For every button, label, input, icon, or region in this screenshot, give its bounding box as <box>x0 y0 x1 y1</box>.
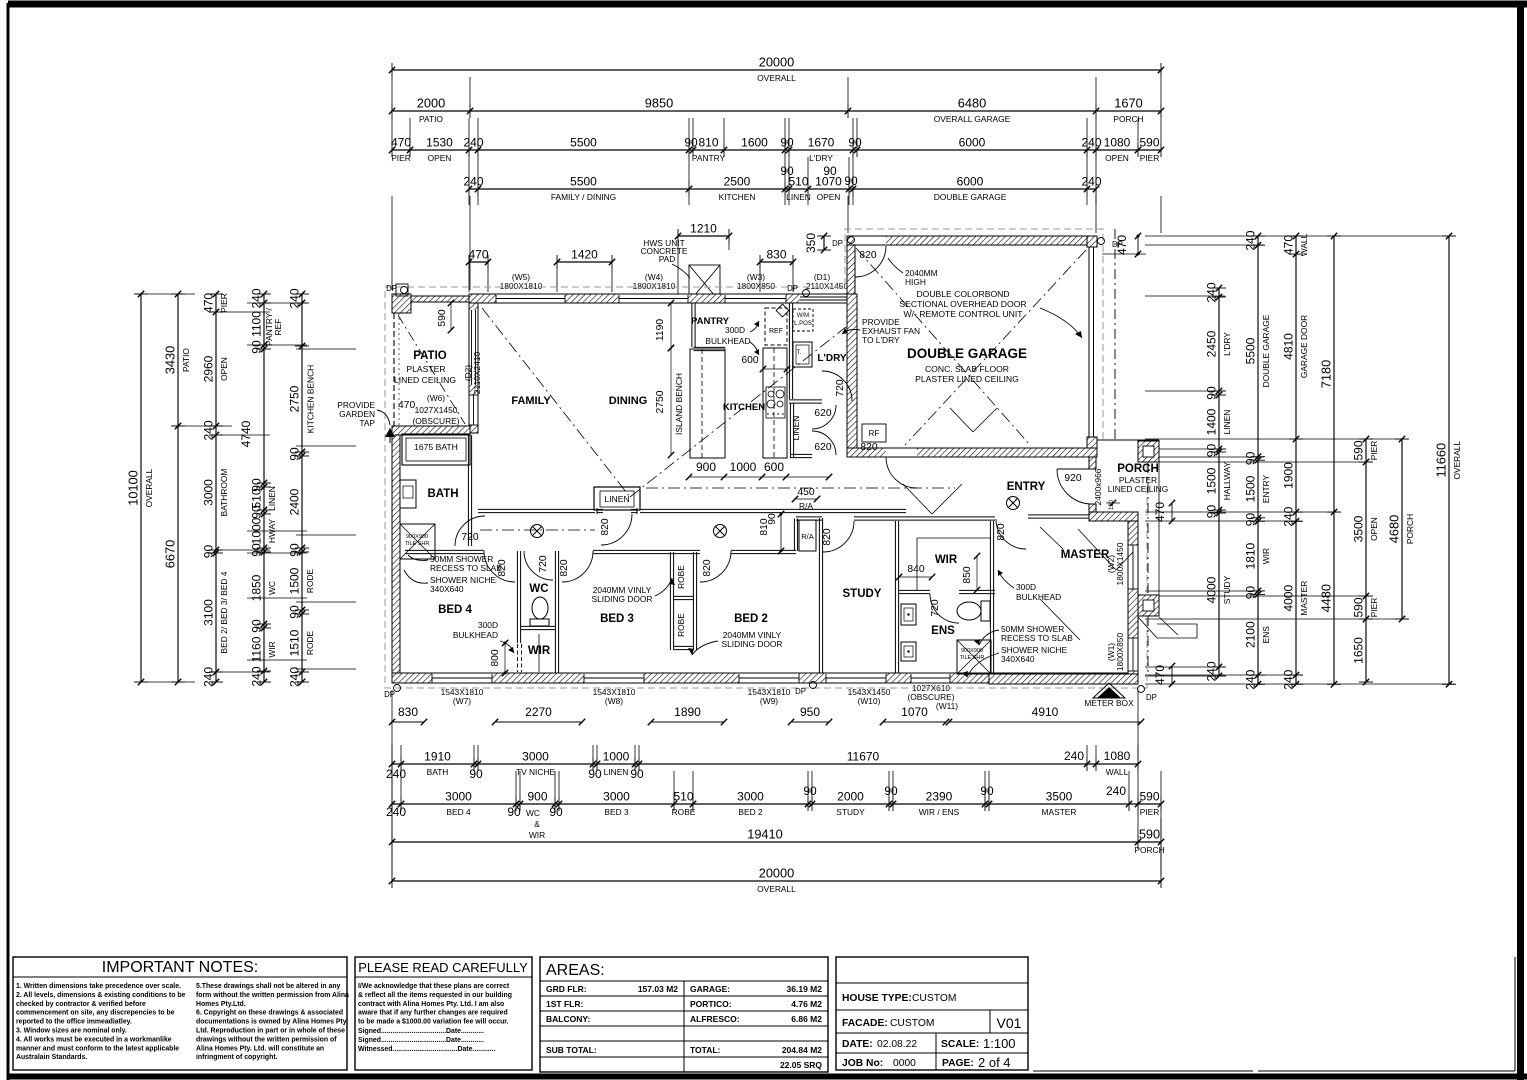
svg-text:FAMILY: FAMILY <box>511 395 551 407</box>
svg-text:1650: 1650 <box>1352 637 1366 664</box>
svg-text:2400x966: 2400x966 <box>1093 468 1103 505</box>
svg-text:240: 240 <box>1282 506 1296 526</box>
meter box <box>1093 683 1125 698</box>
svg-text:240: 240 <box>386 767 406 781</box>
entry diagonals <box>903 484 932 514</box>
svg-text:TAP: TAP <box>359 418 375 428</box>
svg-text:590: 590 <box>437 309 448 326</box>
svg-text:0000: 0000 <box>893 1058 916 1069</box>
left dim chain4 <box>263 294 265 682</box>
svg-text:2750: 2750 <box>655 390 666 413</box>
svg-text:90: 90 <box>767 513 778 525</box>
right dim chain A <box>1218 288 1220 676</box>
svg-text:WIR: WIR <box>529 830 545 840</box>
svg-text:6. Copyright on these drawings: 6. Copyright on these drawings & associa… <box>196 1010 343 1017</box>
hallway north wall east of linen <box>640 508 906 510</box>
svg-text:ROBE: ROBE <box>676 565 686 589</box>
bed3 door arc <box>562 551 593 582</box>
porch step edges <box>1097 520 1128 522</box>
svg-text:470: 470 <box>391 136 411 150</box>
svg-text:920: 920 <box>1064 473 1081 484</box>
svg-text:DP: DP <box>384 690 395 699</box>
svg-text:240: 240 <box>1205 282 1219 302</box>
svg-text:90: 90 <box>250 505 264 519</box>
svg-text:1530: 1530 <box>426 136 453 150</box>
grey window band right wall <box>1130 545 1135 589</box>
svg-text:3000: 3000 <box>202 479 216 506</box>
svg-text:OPEN: OPEN <box>219 357 229 381</box>
svg-text:Homes Pty.Ltd.: Homes Pty.Ltd. <box>196 1001 246 1008</box>
bath north wall <box>392 426 470 435</box>
svg-text:KITCHEN BENCH: KITCHEN BENCH <box>306 365 316 433</box>
svg-text:470: 470 <box>398 400 415 411</box>
svg-text:2750: 2750 <box>288 385 302 412</box>
svg-text:10100: 10100 <box>126 470 141 506</box>
svg-text:1420: 1420 <box>571 248 598 262</box>
svg-text:& reflect all the items reques: & reflect all the items requested in our… <box>358 992 512 999</box>
dim 830 w3 <box>760 261 793 263</box>
svg-text:1070: 1070 <box>901 705 928 719</box>
svg-text:PATIO: PATIO <box>413 350 446 362</box>
svg-text:450: 450 <box>797 487 814 498</box>
svg-text:METER BOX: METER BOX <box>1084 698 1134 708</box>
svg-text:LINEN: LINEN <box>604 494 629 504</box>
svg-text:90: 90 <box>1205 505 1219 519</box>
svg-text:1190: 1190 <box>655 319 666 341</box>
svg-text:11660: 11660 <box>1434 443 1449 478</box>
bed4 door arc <box>484 551 515 582</box>
svg-text:2960: 2960 <box>202 355 216 382</box>
svg-text:BULKHEAD: BULKHEAD <box>1016 592 1061 602</box>
svg-text:ROBE: ROBE <box>672 807 696 817</box>
window W5 opening <box>496 295 565 303</box>
svg-text:600: 600 <box>741 355 758 366</box>
svg-text:720: 720 <box>835 379 846 396</box>
svg-text:2390: 2390 <box>926 790 953 804</box>
svg-text:1800X850: 1800X850 <box>737 281 776 291</box>
svg-text:240: 240 <box>250 666 264 686</box>
svg-text:1900: 1900 <box>1282 462 1296 489</box>
family west wall with D2 and W6 <box>469 303 478 433</box>
svg-text:590: 590 <box>1139 827 1160 842</box>
svg-text:DP: DP <box>795 687 806 696</box>
svg-text:BED 3: BED 3 <box>600 613 634 625</box>
svg-text:PANTRY: PANTRY <box>692 153 726 163</box>
svg-text:590: 590 <box>1352 440 1366 460</box>
study top wall <box>854 516 900 518</box>
svg-text:1080: 1080 <box>1104 749 1131 763</box>
svg-text:L.POS: L.POS <box>794 321 812 327</box>
svg-text:2500: 2500 <box>724 175 751 189</box>
svg-text:1600: 1600 <box>741 136 768 150</box>
REF dashed box <box>765 308 787 345</box>
svg-text:TILE SHR: TILE SHR <box>405 541 430 547</box>
master door arc <box>996 519 1026 549</box>
west wall lower <box>392 426 400 682</box>
top dimension chain row4: rooms <box>469 188 1096 190</box>
svg-text:1910: 1910 <box>424 750 451 764</box>
svg-text:90: 90 <box>1244 513 1258 527</box>
svg-text:820: 820 <box>859 250 876 261</box>
patio corner pier <box>392 294 411 313</box>
svg-text:ISLAND BENCH: ISLAND BENCH <box>674 373 684 435</box>
svg-text:PIER: PIER <box>219 293 229 313</box>
bath walls <box>467 435 469 546</box>
svg-text:90: 90 <box>507 805 521 819</box>
svg-text:(OBSCURE): (OBSCURE) <box>413 416 460 426</box>
dim 1420 w4 <box>557 261 612 263</box>
svg-text:R/A: R/A <box>801 532 814 541</box>
svg-text:3500: 3500 <box>1352 515 1366 542</box>
dim 470 patio <box>469 261 488 263</box>
svg-text:350: 350 <box>804 233 818 253</box>
svg-text:DOUBLE GARAGE: DOUBLE GARAGE <box>907 346 1027 361</box>
laundry door arc <box>822 371 852 401</box>
svg-text:2450: 2450 <box>1205 330 1219 357</box>
svg-text:SCALE:: SCALE: <box>941 1039 979 1050</box>
master north wall west part <box>1028 514 1089 516</box>
svg-text:90: 90 <box>848 136 862 150</box>
bulkhead leader arrows <box>750 321 759 332</box>
bottom chain row G <box>392 803 1161 805</box>
svg-text:470: 470 <box>1153 665 1167 685</box>
svg-text:PIER: PIER <box>391 153 411 163</box>
bedroom row top wall <box>405 549 484 551</box>
svg-text:BED 3: BED 3 <box>604 807 629 817</box>
svg-text:infringment of copyright.: infringment of copyright. <box>196 1054 278 1061</box>
svg-text:aware that if any further chan: aware that if any further changes are re… <box>358 1010 508 1017</box>
bed2 door arc <box>700 551 731 582</box>
svg-text:RF: RF <box>869 429 880 438</box>
garage rear wall <box>847 448 1097 457</box>
bottom chain 20000 OVERALL <box>392 880 1161 882</box>
ceiling diagonal dining-kitchen <box>630 327 846 497</box>
bath vanity <box>400 480 416 508</box>
svg-text:900: 900 <box>527 790 547 804</box>
svg-text:19410: 19410 <box>747 827 783 842</box>
svg-text:LINEN: LINEN <box>791 416 801 441</box>
svg-text:240: 240 <box>202 667 216 687</box>
svg-text:BED 2: BED 2 <box>734 613 768 625</box>
svg-text:90: 90 <box>588 767 602 781</box>
svg-text:WIR / ENS: WIR / ENS <box>919 807 960 817</box>
svg-text:240: 240 <box>386 805 406 819</box>
svg-text:PANTRY: PANTRY <box>691 316 730 327</box>
left dim chain3 <box>215 294 217 682</box>
svg-text:90: 90 <box>288 543 302 557</box>
svg-text:DP: DP <box>1112 240 1123 249</box>
svg-text:830: 830 <box>766 248 786 262</box>
svg-text:90: 90 <box>684 136 698 150</box>
svg-text:LINED CEILING: LINED CEILING <box>394 375 456 385</box>
svg-text:240: 240 <box>1064 749 1084 763</box>
porch slab step bottom-right <box>1157 623 1197 625</box>
svg-text:90: 90 <box>803 784 817 798</box>
svg-text:240: 240 <box>1081 175 1101 189</box>
study R/A closet <box>796 516 822 518</box>
svg-text:KITCHEN: KITCHEN <box>719 192 756 202</box>
svg-text:840: 840 <box>907 564 924 575</box>
important notes block <box>13 957 347 1070</box>
master bottom wall <box>989 674 1138 684</box>
svg-text:590: 590 <box>1139 136 1159 150</box>
svg-text:90: 90 <box>980 784 994 798</box>
svg-text:1510: 1510 <box>288 629 302 656</box>
svg-text:Alina Homes Pty. Ltd. will con: Alina Homes Pty. Ltd. will constitute an <box>196 1045 324 1052</box>
svg-text:documentations is owned by Ali: documentations is owned by Alina Homes P… <box>196 1019 348 1026</box>
svg-text:2110X2410: 2110X2410 <box>472 352 482 395</box>
bottom chain 19410 <box>392 841 1161 843</box>
svg-text:REF: REF <box>769 328 783 335</box>
svg-text:HIGH: HIGH <box>905 277 926 287</box>
svg-text:590: 590 <box>1139 790 1159 804</box>
wir shelf outline <box>916 538 918 590</box>
linen closet hall <box>594 487 640 510</box>
grey window bands bottom wall <box>432 676 492 681</box>
svg-text:2 of 4: 2 of 4 <box>978 1055 1011 1070</box>
900 1000 600 dims <box>689 476 829 478</box>
svg-text:KITCHEN: KITCHEN <box>723 402 765 413</box>
svg-text:DP: DP <box>1146 693 1157 702</box>
svg-text:4740: 4740 <box>239 420 253 447</box>
garage front wall <box>847 236 1097 245</box>
svg-text:240: 240 <box>1081 136 1101 150</box>
svg-text:GARAGE:: GARAGE: <box>690 984 730 994</box>
svg-text:510: 510 <box>673 790 693 804</box>
svg-text:9850: 9850 <box>645 96 673 111</box>
linen closet side stubs <box>597 508 603 510</box>
svg-text:PATIO: PATIO <box>419 114 443 124</box>
svg-text:1080: 1080 <box>1104 136 1131 150</box>
svg-text:OVERALL: OVERALL <box>757 884 796 894</box>
svg-text:TILE SHR: TILE SHR <box>960 655 985 661</box>
svg-text:900X900: 900X900 <box>961 648 983 654</box>
svg-text:Signed........................: Signed..................................… <box>358 1028 484 1035</box>
svg-text:STUDY: STUDY <box>836 807 865 817</box>
dim 1210 island bench <box>678 235 729 237</box>
svg-text:02.08.22: 02.08.22 <box>877 1039 917 1050</box>
svg-text:OVERALL: OVERALL <box>1452 441 1462 480</box>
svg-text:I/We acknowledge that these pl: I/We acknowledge that these plans are co… <box>358 983 510 990</box>
svg-text:PLASTER: PLASTER <box>406 364 445 374</box>
svg-text:90: 90 <box>288 605 302 619</box>
svg-text:90: 90 <box>780 136 794 150</box>
svg-text:MASTER: MASTER <box>1299 581 1309 616</box>
svg-text:HOUSE TYPE:: HOUSE TYPE: <box>842 993 912 1004</box>
svg-text:PIER: PIER <box>1140 153 1160 163</box>
svg-text:900X900: 900X900 <box>406 534 428 540</box>
svg-text:820: 820 <box>600 518 611 535</box>
svg-text:90: 90 <box>1205 444 1219 458</box>
svg-text:LINEN: LINEN <box>786 192 811 202</box>
svg-text:90: 90 <box>288 447 302 461</box>
bottom small dims row <box>392 721 424 723</box>
ens door arc <box>930 594 959 623</box>
svg-text:manner and must conform to th: manner and must conform to the latest ap… <box>16 1045 179 1052</box>
garage diagonals <box>856 248 1030 445</box>
svg-text:3000: 3000 <box>445 790 472 804</box>
svg-text:90: 90 <box>1244 586 1258 600</box>
svg-text:RODE: RODE <box>305 568 315 593</box>
svg-text:DOUBLE GARAGE: DOUBLE GARAGE <box>934 192 1007 202</box>
svg-text:SLIDING DOOR: SLIDING DOOR <box>592 594 653 604</box>
wir south wall <box>899 589 930 591</box>
svg-text:L'DRY: L'DRY <box>809 153 833 163</box>
svg-text:1670: 1670 <box>1114 96 1142 111</box>
svg-text:470: 470 <box>1153 502 1167 522</box>
please read carefully block <box>355 957 532 1070</box>
svg-text:OVERALL: OVERALL <box>757 73 796 83</box>
svg-text:5500: 5500 <box>570 136 597 150</box>
svg-text:1800X1810: 1800X1810 <box>633 281 676 291</box>
svg-text:ALFRESCO:: ALFRESCO: <box>690 1014 740 1024</box>
svg-text:reported to the office immeadi: reported to the office immeadiatley. <box>16 1019 132 1026</box>
svg-text:DOUBLE COLORBOND: DOUBLE COLORBOND <box>916 289 1009 299</box>
svg-text:HALLWAY: HALLWAY <box>1222 461 1232 500</box>
svg-text:SUB TOTAL:: SUB TOTAL: <box>546 1045 597 1055</box>
svg-text:4810: 4810 <box>1282 333 1296 360</box>
hallway center dashdot <box>480 529 595 531</box>
svg-text:1500: 1500 <box>1244 475 1258 502</box>
master-porch north wall <box>1089 512 1138 521</box>
svg-text:240: 240 <box>202 420 216 440</box>
svg-text:470: 470 <box>468 248 488 262</box>
svg-text:GARAGE DOOR: GARAGE DOOR <box>1299 315 1309 378</box>
svg-text:DP: DP <box>832 239 843 248</box>
svg-text:RECESS TO SLAB: RECESS TO SLAB <box>430 563 502 573</box>
svg-text:90: 90 <box>630 767 644 781</box>
svg-text:BATH: BATH <box>427 767 449 777</box>
svg-text:620: 620 <box>814 408 831 419</box>
svg-text:drawings without the written p: drawings without the written permission … <box>196 1036 337 1043</box>
svg-text:1100: 1100 <box>250 311 264 337</box>
window W4 opening <box>619 295 688 303</box>
svg-text:240: 240 <box>1244 669 1258 689</box>
svg-text:590: 590 <box>1352 597 1366 617</box>
svg-text:(W7): (W7) <box>453 696 471 706</box>
garage personnel door arc <box>855 246 886 277</box>
bottom right rule <box>1033 1070 1253 1072</box>
garage left / house east wall <box>847 245 855 294</box>
wir north wall <box>900 516 995 518</box>
svg-text:WIR: WIR <box>1261 548 1271 564</box>
svg-text:3500: 3500 <box>1046 790 1073 804</box>
svg-text:(W8): (W8) <box>605 696 623 706</box>
svg-text:WC: WC <box>529 583 548 595</box>
svg-text:4.76 M2: 4.76 M2 <box>791 999 822 1009</box>
svg-text:checked by contractor & verifi: checked by contractor & verified before <box>16 1001 146 1008</box>
svg-text:300D: 300D <box>1016 582 1036 592</box>
svg-text:PLEASE READ CAREFULLY: PLEASE READ CAREFULLY <box>358 960 528 975</box>
svg-text:LINEN: LINEN <box>604 767 629 777</box>
svg-text:PORTICO:: PORTICO: <box>690 999 732 1009</box>
svg-text:WALL: WALL <box>1299 233 1309 256</box>
svg-text:PAGE:: PAGE: <box>942 1058 974 1069</box>
svg-text:20000: 20000 <box>759 866 795 881</box>
svg-text:PIER: PIER <box>1140 807 1160 817</box>
svg-text:950: 950 <box>800 705 820 719</box>
top dimension chain row2: patio/garage/porch <box>392 110 1161 112</box>
svg-text:MASTER: MASTER <box>1042 807 1077 817</box>
bath tub 1675 <box>402 434 470 465</box>
svg-text:1890: 1890 <box>674 705 701 719</box>
svg-text:820: 820 <box>860 442 877 453</box>
long extension lines to plan <box>391 196 393 290</box>
svg-text:2. All levels, dimensions & ex: 2. All levels, dimensions & existing con… <box>16 992 186 999</box>
bottom chain row F <box>392 763 1138 765</box>
svg-text:PIER: PIER <box>1369 441 1379 461</box>
svg-text:L'DRY: L'DRY <box>1222 332 1232 356</box>
svg-text:(W11): (W11) <box>936 701 958 711</box>
svg-text:810: 810 <box>698 136 718 150</box>
svg-text:6000: 6000 <box>959 136 986 150</box>
entry east wall upper <box>1089 457 1096 469</box>
svg-text:OPEN: OPEN <box>1369 517 1379 541</box>
svg-text:5500: 5500 <box>1244 337 1258 364</box>
svg-text:FAMILY / DINING: FAMILY / DINING <box>551 192 616 202</box>
svg-text:DOUBLE GARAGE: DOUBLE GARAGE <box>1261 314 1271 387</box>
svg-text:240: 240 <box>288 667 302 687</box>
svg-text:1800X1450: 1800X1450 <box>1115 542 1125 585</box>
right dim porch pier chain <box>1365 439 1367 682</box>
svg-text:620: 620 <box>814 442 831 453</box>
svg-text:90: 90 <box>250 619 264 633</box>
master diagonals <box>1078 529 1116 570</box>
wc door arc <box>524 551 553 580</box>
svg-text:2000: 2000 <box>417 96 445 111</box>
svg-text:90: 90 <box>780 164 794 178</box>
svg-text:1850: 1850 <box>250 574 264 601</box>
svg-text:4680: 4680 <box>1387 515 1402 543</box>
svg-text:OPEN: OPEN <box>428 153 452 163</box>
svg-text:90: 90 <box>823 164 837 178</box>
porch piers and slab <box>1097 439 1159 441</box>
svg-text:WC: WC <box>526 808 540 818</box>
svg-text:SLIDING DOOR: SLIDING DOOR <box>722 639 783 649</box>
laundry W/M <box>793 309 813 331</box>
svg-text:1. Written dimensions take pre: 1. Written dimensions take precedence ov… <box>16 983 181 990</box>
svg-text:BATHROOM: BATHROOM <box>219 469 229 517</box>
svg-text:V01: V01 <box>997 1015 1022 1031</box>
svg-text:850: 850 <box>962 566 973 583</box>
svg-text:W/M: W/M <box>797 313 809 319</box>
svg-text:90: 90 <box>1244 451 1258 465</box>
svg-text:1670: 1670 <box>808 136 835 150</box>
DP symbols <box>401 287 408 294</box>
svg-text:240: 240 <box>288 288 302 308</box>
svg-text:5500: 5500 <box>570 175 597 189</box>
svg-text:commencement on site, any disc: commencement on site, any discrepencies … <box>16 1010 175 1017</box>
bath shower 900x900 <box>400 524 435 559</box>
svg-text:4. All works must be executed: 4. All works must be executed in a workm… <box>16 1036 172 1043</box>
svg-text:820: 820 <box>702 559 713 576</box>
svg-text:2110X1450: 2110X1450 <box>806 281 849 291</box>
entry east wall lower <box>1089 504 1096 512</box>
dim 350 dlry <box>823 236 825 250</box>
svg-text:BED 4: BED 4 <box>438 604 472 616</box>
svg-text:340X640: 340X640 <box>1001 654 1035 664</box>
svg-text:4000: 4000 <box>1282 585 1296 612</box>
linen doors 620 <box>812 405 836 429</box>
HWS concrete pad box <box>689 265 720 302</box>
ens vanities <box>901 604 916 625</box>
svg-text:300D: 300D <box>725 325 745 335</box>
svg-text:PORCH: PORCH <box>1113 114 1143 124</box>
entry door 920 <box>1057 468 1092 470</box>
ens/master wall <box>989 521 991 674</box>
svg-text:RECESS TO SLAB: RECESS TO SLAB <box>1001 633 1073 643</box>
svg-text:IMPORTANT NOTES:: IMPORTANT NOTES: <box>102 959 258 976</box>
